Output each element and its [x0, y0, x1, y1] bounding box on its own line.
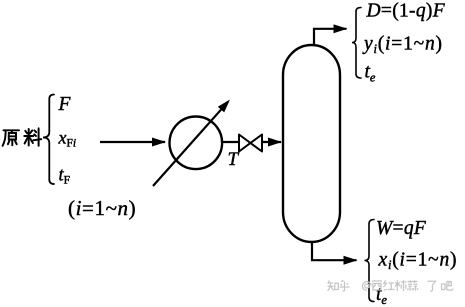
蒜: [408, 280, 419, 291]
svg-text:(i=1~n): (i=1~n): [68, 196, 136, 220]
flash column V1 (vessel): [283, 45, 340, 242]
wire feed arrow into heater: [100, 141, 165, 143]
svg-text:te: te: [365, 62, 376, 85]
@: [362, 282, 371, 291]
料: [28, 129, 30, 146]
svg-text:T: T: [228, 149, 240, 170]
watermark 知乎 @西红柿蒜了吧: [328, 280, 453, 291]
了: [428, 281, 436, 291]
西: [372, 281, 382, 290]
wire valve to column arrow: [262, 141, 281, 143]
wire top vapor pipe: [314, 29, 347, 45]
label 原料 (feed) CJK drawn as paths: [3, 128, 42, 146]
svg-text:te: te: [376, 284, 387, 307]
heat exchanger diagonal arrow: [153, 106, 224, 186]
svg-text:xi(i=1~n): xi(i=1~n): [378, 250, 458, 273]
wire bottom liquid pipe: [312, 241, 357, 260]
brace top (vapor product): [352, 8, 361, 79]
知: [328, 281, 339, 292]
wire heater to valve: [222, 141, 240, 143]
heat exchanger E1 (circle): [170, 117, 223, 170]
柿: [395, 280, 406, 291]
svg-text:D=(1-q)F: D=(1-q)F: [366, 0, 446, 21]
红: [384, 280, 395, 290]
valve (throttle): [239, 135, 262, 152]
原: [4, 129, 20, 131]
吧: [442, 281, 453, 290]
svg-text:yi(i=1~n): yi(i=1~n): [362, 34, 443, 57]
svg-text:tF: tF: [59, 166, 71, 187]
svg-text:xFi: xFi: [58, 128, 77, 150]
brace bottom (liquid product): [365, 220, 375, 302]
svg-text:W=qF: W=qF: [376, 218, 427, 239]
svg-text:F: F: [58, 94, 72, 115]
brace left (feed): [43, 95, 54, 185]
乎: [340, 280, 350, 291]
